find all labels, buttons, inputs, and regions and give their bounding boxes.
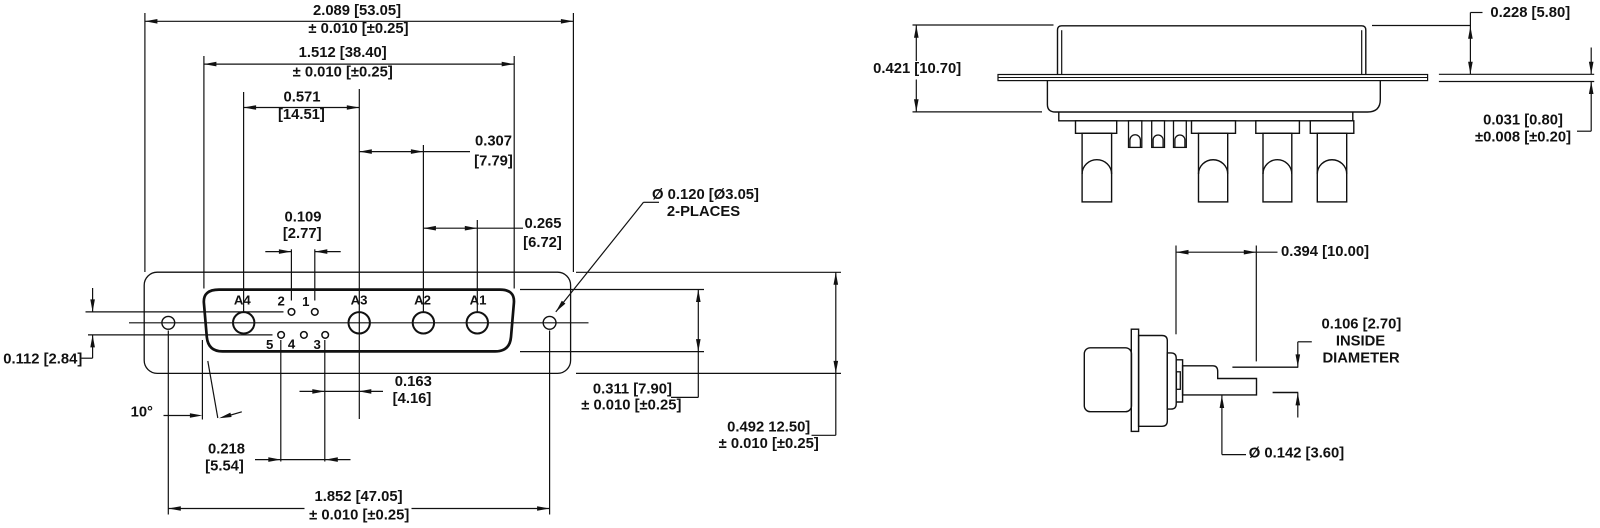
- dimension 0.228 shroud height: [1372, 25, 1470, 27]
- shroud inner wall right: [1361, 30, 1363, 74]
- dimension 0.163 pin3 to A3: [324, 340, 326, 462]
- svg-text:INSIDE: INSIDE: [1336, 333, 1385, 349]
- dimension 0.311 insert height: [520, 289, 704, 291]
- svg-text:± 0.010 [±0.25]: ± 0.010 [±0.25]: [581, 398, 681, 414]
- svg-text:A2: A2: [414, 293, 431, 308]
- side view contact A4 solder cup body: [1082, 133, 1112, 202]
- side view flange plate: [998, 75, 1428, 81]
- svg-text:0.394 [10.00]: 0.394 [10.00]: [1281, 244, 1369, 260]
- right mounting hole: [543, 316, 556, 329]
- svg-text:1: 1: [302, 294, 309, 309]
- svg-text:0.311 [7.90]: 0.311 [7.90]: [593, 381, 672, 397]
- pin 4 circle: [301, 332, 308, 339]
- svg-text:± 0.010 [±0.25]: ± 0.010 [±0.25]: [309, 508, 409, 524]
- detail view inside-diameter lower line: [1273, 392, 1299, 394]
- dimension 0.218 pin5 to pin3: [280, 340, 282, 462]
- side view contact A2 solder cup body: [1263, 133, 1292, 202]
- svg-text:1.512 [38.40]: 1.512 [38.40]: [299, 45, 387, 61]
- pin 3 circle: [322, 332, 329, 339]
- svg-text:Ø 0.142 [3.60]: Ø 0.142 [3.60]: [1249, 446, 1344, 462]
- side view contact A1 shoulder: [1310, 121, 1354, 134]
- svg-text:Ø 0.120 [Ø3.05]: Ø 0.120 [Ø3.05]: [652, 187, 759, 203]
- svg-text:0.109: 0.109: [284, 210, 321, 226]
- svg-text:1.852 [47.05]: 1.852 [47.05]: [314, 489, 402, 505]
- side view contact A3 shoulder: [1192, 121, 1236, 134]
- svg-text:[7.79]: [7.79]: [474, 154, 513, 170]
- contact A4 circle: [233, 312, 254, 333]
- top pin-row extension line: [86, 311, 284, 313]
- dimension 1.512 insert width: [203, 56, 205, 289]
- bottom pin-row extension line: [88, 334, 273, 336]
- dimension 0.265 A2 to A1: [476, 220, 478, 312]
- svg-text:0.031 [0.80]: 0.031 [0.80]: [1483, 113, 1563, 129]
- dimension 0.112 pin row offset: [92, 288, 94, 312]
- pin 5 circle: [278, 332, 285, 339]
- svg-text:0.307: 0.307: [475, 134, 512, 150]
- svg-text:2-PLACES: 2-PLACES: [667, 204, 740, 220]
- detail view contact sleeve and pin: [1183, 366, 1257, 395]
- pin 1 circle: [312, 309, 319, 316]
- svg-text:A4: A4: [234, 293, 252, 308]
- svg-text:0.106 [2.70]: 0.106 [2.70]: [1322, 317, 1402, 333]
- detail view rear solder block: [1084, 348, 1131, 412]
- svg-text:3: 3: [314, 337, 321, 352]
- svg-text:DIAMETER: DIAMETER: [1322, 350, 1400, 366]
- detail view step 2: [1176, 360, 1182, 402]
- contact A3 circle: [349, 312, 370, 333]
- leader diameter 0.120 mounting holes: [556, 202, 644, 312]
- svg-text:[14.51]: [14.51]: [278, 107, 325, 123]
- side view small pin 3: [1174, 121, 1187, 148]
- svg-text:± 0.010 [±0.25]: ± 0.010 [±0.25]: [308, 21, 408, 37]
- detail view flange disc: [1131, 329, 1138, 431]
- pin 2 circle: [288, 309, 295, 316]
- svg-text:0.112 [2.84]: 0.112 [2.84]: [3, 352, 82, 368]
- dimension 0.394 contact length: [1175, 246, 1177, 335]
- side view contact A3 cup arc: [1199, 160, 1228, 174]
- svg-text:2.089 [53.05]: 2.089 [53.05]: [313, 3, 401, 19]
- svg-text:[5.54]: [5.54]: [205, 459, 244, 475]
- detail view main cylinder: [1139, 336, 1168, 427]
- svg-text:0.421 [10.70]: 0.421 [10.70]: [873, 61, 961, 77]
- dimension 1.852 mounting hole spacing: [167, 331, 169, 515]
- dimension 0.307 A3 to A2: [422, 145, 424, 312]
- svg-text:2: 2: [278, 294, 285, 309]
- svg-text:0.265: 0.265: [524, 216, 561, 232]
- svg-text:A1: A1: [470, 293, 487, 308]
- side view contact A3 solder cup body: [1199, 133, 1228, 202]
- svg-text:0.571: 0.571: [283, 90, 320, 106]
- svg-text:[2.77]: [2.77]: [283, 226, 322, 242]
- front view flange outline: [144, 272, 570, 373]
- side view small pin 1: [1129, 121, 1142, 148]
- side view small pin 2: [1152, 121, 1165, 148]
- side view contact A2 shoulder: [1256, 121, 1300, 134]
- detail view step 1: [1167, 353, 1176, 409]
- dimension 0.109 pin2 to pin1: [290, 249, 292, 300]
- shroud inner wall left: [1061, 30, 1063, 74]
- detail view inside-diameter upper line: [1232, 366, 1298, 368]
- svg-text:± 0.010 [±0.25]: ± 0.010 [±0.25]: [293, 65, 393, 81]
- dimension 0.571 A4 to A3: [243, 92, 245, 312]
- left mounting hole: [162, 316, 175, 329]
- side view contact A2 cup arc: [1263, 160, 1292, 174]
- svg-text:± 0.010 [±0.25]: ± 0.010 [±0.25]: [719, 436, 819, 452]
- svg-text:[4.16]: [4.16]: [393, 391, 432, 407]
- detail view inner notch: [1176, 372, 1180, 390]
- svg-text:0.163: 0.163: [395, 374, 432, 390]
- side view contact A1 cup arc: [1317, 160, 1346, 174]
- svg-text:0.218: 0.218: [208, 441, 245, 457]
- svg-text:4: 4: [288, 337, 296, 352]
- horizontal centerline through contacts: [129, 322, 589, 324]
- contact A2 circle: [413, 312, 434, 333]
- dimension 2.089 overall width: [144, 13, 146, 272]
- front view D-insert outline: [204, 290, 514, 352]
- dimension 0.031 plate thickness: [1439, 73, 1594, 75]
- svg-text:0.492 12.50]: 0.492 12.50]: [727, 420, 810, 436]
- side view contact A1 solder cup body: [1317, 133, 1346, 202]
- side view shroud outline: [1058, 26, 1366, 75]
- side view contact A4 cup arc: [1082, 160, 1112, 174]
- svg-text:0.228 [5.80]: 0.228 [5.80]: [1490, 5, 1570, 21]
- contact A1 circle: [467, 312, 488, 333]
- svg-text:5: 5: [266, 337, 273, 352]
- dimension 0.106 inside diameter: [1298, 341, 1312, 343]
- svg-text:±0.008 [±0.20]: ±0.008 [±0.20]: [1475, 130, 1571, 146]
- dimension 0.421 overall height: [913, 24, 1054, 26]
- svg-text:[6.72]: [6.72]: [523, 235, 562, 251]
- dimension diameter 0.142 pin: [1221, 396, 1223, 455]
- dimension 0.492 flange height: [576, 271, 841, 273]
- side view contact A4 shoulder: [1076, 121, 1117, 134]
- svg-text:10°: 10°: [131, 404, 153, 420]
- side view insert step: [1059, 112, 1353, 121]
- side view insulator body: [1047, 81, 1380, 112]
